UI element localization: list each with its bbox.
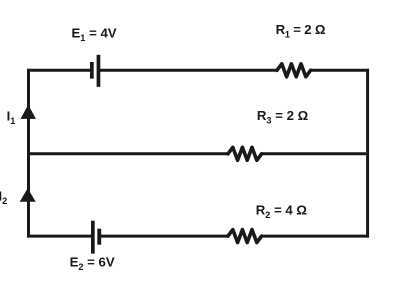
wire: left vertical branch — [27, 69, 30, 238]
svg-text:R3 = 2 Ω: R3 = 2 Ω — [257, 108, 309, 125]
wire: middle branch left segment — [27, 152, 228, 155]
wire: bottom-left segment to battery E2 — [27, 235, 91, 238]
resistor R1 zigzag — [277, 64, 311, 77]
battery E2 positive plate (long) — [91, 221, 95, 254]
resistor R2 zigzag — [228, 230, 262, 243]
resistor R3 zigzag — [228, 147, 262, 160]
wire: top-right segment from R1 to corner — [311, 69, 369, 72]
svg-text:E2 = 6V: E2 = 6V — [70, 255, 115, 272]
battery E1 positive plate (long) — [97, 55, 101, 87]
current arrow I2 — [20, 188, 36, 201]
wire: middle branch right segment — [262, 152, 367, 155]
wire: top segment from E1 to R1 — [100, 69, 277, 72]
current arrow I1 — [21, 105, 36, 119]
wire: top-left segment to battery E1 — [27, 69, 90, 72]
svg-text:E1 = 4V: E1 = 4V — [72, 26, 117, 43]
battery E2 negative plate (short) — [97, 229, 101, 245]
wire: right vertical branch — [366, 69, 369, 238]
battery E1 negative plate (short) — [90, 62, 94, 79]
wire: bottom segment from E2 to R2 — [101, 235, 228, 238]
svg-text:R2 = 4 Ω: R2 = 4 Ω — [256, 203, 308, 220]
svg-text:R1 = 2 Ω: R1 = 2 Ω — [276, 22, 326, 39]
wire: bottom-right segment from R2 to corner — [262, 235, 369, 238]
